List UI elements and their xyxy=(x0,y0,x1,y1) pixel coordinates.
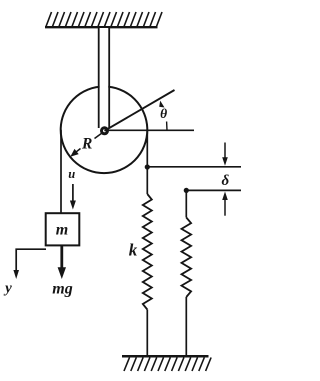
radius R leader arrow segment xyxy=(72,149,81,156)
svg-text:R: R xyxy=(81,136,92,153)
upper datum line xyxy=(147,166,241,168)
mg weight arrow xyxy=(60,246,63,269)
svg-text:y: y xyxy=(3,280,12,296)
horizontal reference line from center xyxy=(105,129,195,131)
ground line xyxy=(122,355,209,358)
right rope xyxy=(146,130,148,194)
pulley support shaft xyxy=(100,28,109,127)
angle theta arc arrow xyxy=(159,101,164,108)
node at rope/spring junction xyxy=(145,164,150,169)
delta upper arrow xyxy=(224,143,226,159)
svg-text:k: k xyxy=(129,241,138,260)
ground hatching xyxy=(124,358,211,372)
node at lower datum xyxy=(184,188,189,193)
y coordinate leader xyxy=(16,249,46,271)
rotated radius line (theta) xyxy=(105,90,175,131)
control input u arrow xyxy=(72,184,74,202)
delta lower arrow xyxy=(224,199,226,216)
spring k lower rod xyxy=(146,310,148,357)
mass block m xyxy=(46,213,80,245)
svg-text:m: m xyxy=(56,222,68,239)
right spring lower rod xyxy=(185,297,187,356)
spring k (left) xyxy=(143,194,152,310)
svg-text:θ: θ xyxy=(160,106,167,121)
svg-text:δ: δ xyxy=(221,173,229,189)
pulley circle xyxy=(61,87,148,174)
radius R arrowhead xyxy=(70,149,78,157)
y arrowhead xyxy=(13,270,19,279)
angle theta leader tick xyxy=(166,122,168,131)
ceiling hatching xyxy=(46,12,162,27)
ceiling line xyxy=(45,26,158,28)
right spring upper rod xyxy=(185,190,187,217)
svg-text:mg: mg xyxy=(52,281,72,298)
left rope xyxy=(60,130,62,213)
pulley hub xyxy=(102,128,108,134)
lower datum line xyxy=(186,189,241,191)
svg-text:u: u xyxy=(68,167,75,181)
right spring xyxy=(182,218,192,298)
radius R leader: segment from hub xyxy=(95,133,103,139)
